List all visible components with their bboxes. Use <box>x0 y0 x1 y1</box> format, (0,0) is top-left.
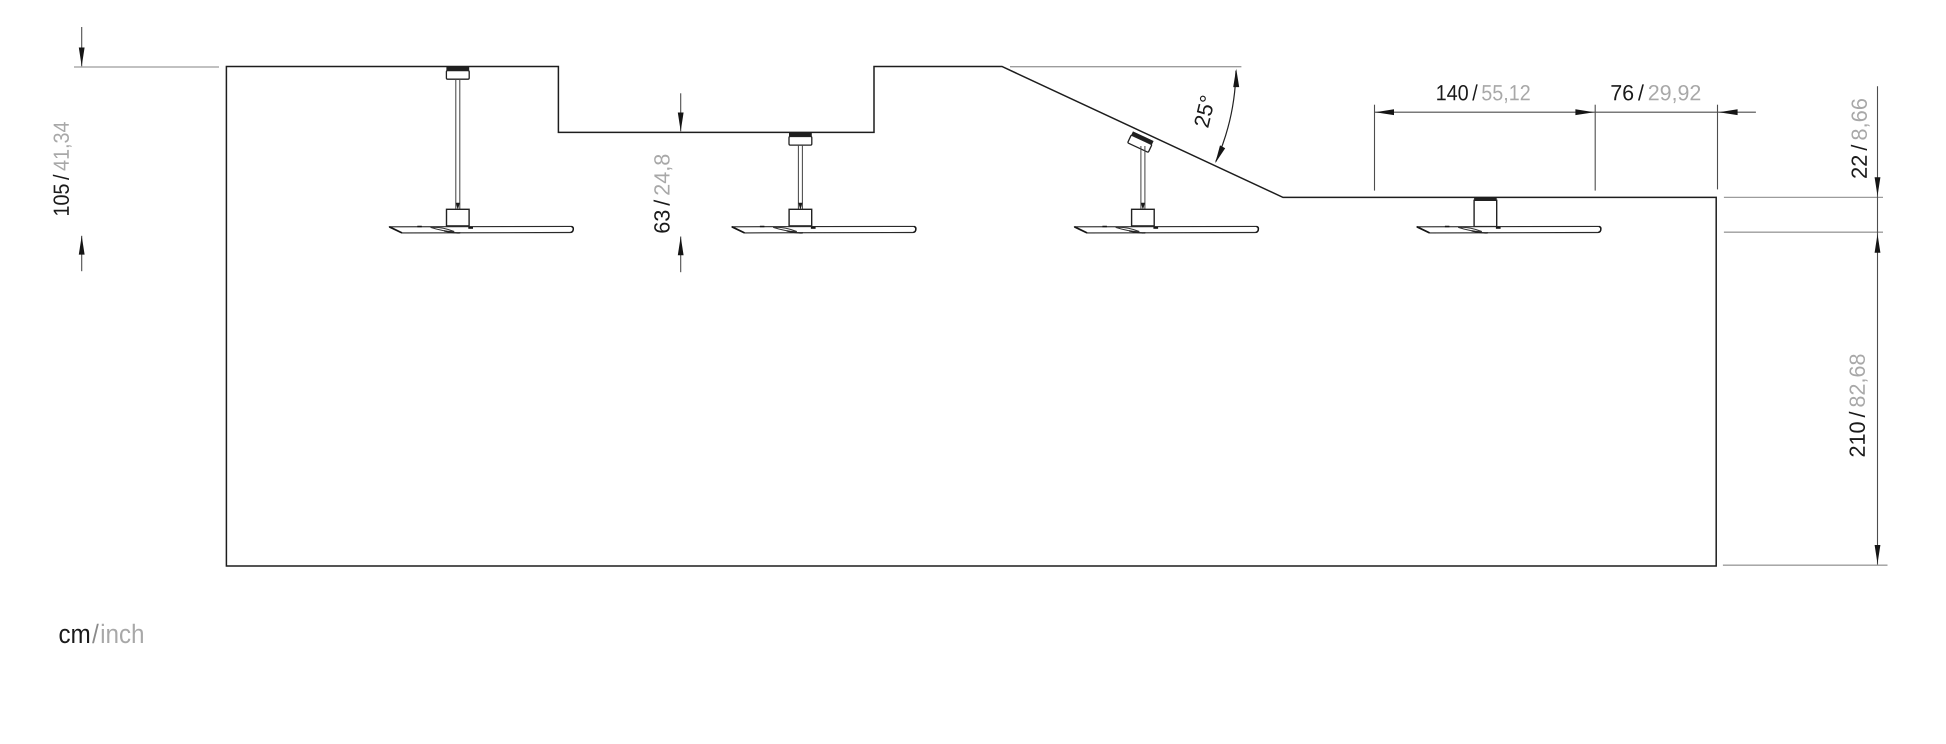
fan F4 flush mount <box>1474 198 1497 201</box>
fan F2 rod <box>798 145 802 209</box>
extension line 76 right (dark) <box>1717 105 1719 190</box>
fan F2 motor <box>789 209 812 226</box>
dimension 22/210 vertical line <box>1877 86 1879 564</box>
fan F2 blades <box>732 226 916 233</box>
extension line 140/76 middle (dark) <box>1594 105 1596 191</box>
dimension 63 line bottom <box>680 237 682 273</box>
fan F1 blades <box>389 226 573 233</box>
fan F1 motor <box>447 209 470 226</box>
angle arc 25deg <box>1216 71 1236 162</box>
fan F2 mount <box>789 133 812 145</box>
fan F1 rod <box>456 79 460 209</box>
dimension 63 line top <box>680 93 682 131</box>
fan F4 body <box>1474 200 1497 226</box>
angle text 25deg <box>1195 96 1213 128</box>
fan F3 rod <box>1141 146 1145 209</box>
dimension 105 line top <box>81 27 83 66</box>
dimension text 22/8,66 <box>1851 99 1870 178</box>
extension line right ceiling (gray) <box>1724 196 1883 198</box>
fan F3 blades <box>1074 226 1258 233</box>
extension line right blade level (gray) <box>1724 231 1883 233</box>
fan F3 motor <box>1132 209 1155 226</box>
dimension text 63/24,8 <box>654 155 673 233</box>
extension line slope-start horizontal (gray) <box>1010 66 1241 68</box>
extension line right bottom (gray) <box>1723 564 1888 566</box>
extension line 140 left (dark) <box>1374 105 1376 191</box>
dimension 105 line bottom <box>81 236 83 271</box>
room cross-section outline <box>226 67 1716 567</box>
units label cm/inch <box>60 624 143 643</box>
dimension 140 line <box>1375 111 1596 113</box>
fan F4 blades <box>1417 226 1601 233</box>
dimension text 210/82,68 <box>1849 354 1868 456</box>
dimension text 140/55,12 <box>1437 84 1530 103</box>
dimension 76 line + outside arrow <box>1595 111 1756 113</box>
extension line left ceiling (gray) <box>74 66 219 68</box>
fan F3 tilted mount on slope <box>1128 131 1154 152</box>
dimension text 76/29,92 <box>1611 84 1700 103</box>
dimension text 105/41,34 <box>53 122 72 215</box>
fan F1 mount <box>446 67 469 79</box>
